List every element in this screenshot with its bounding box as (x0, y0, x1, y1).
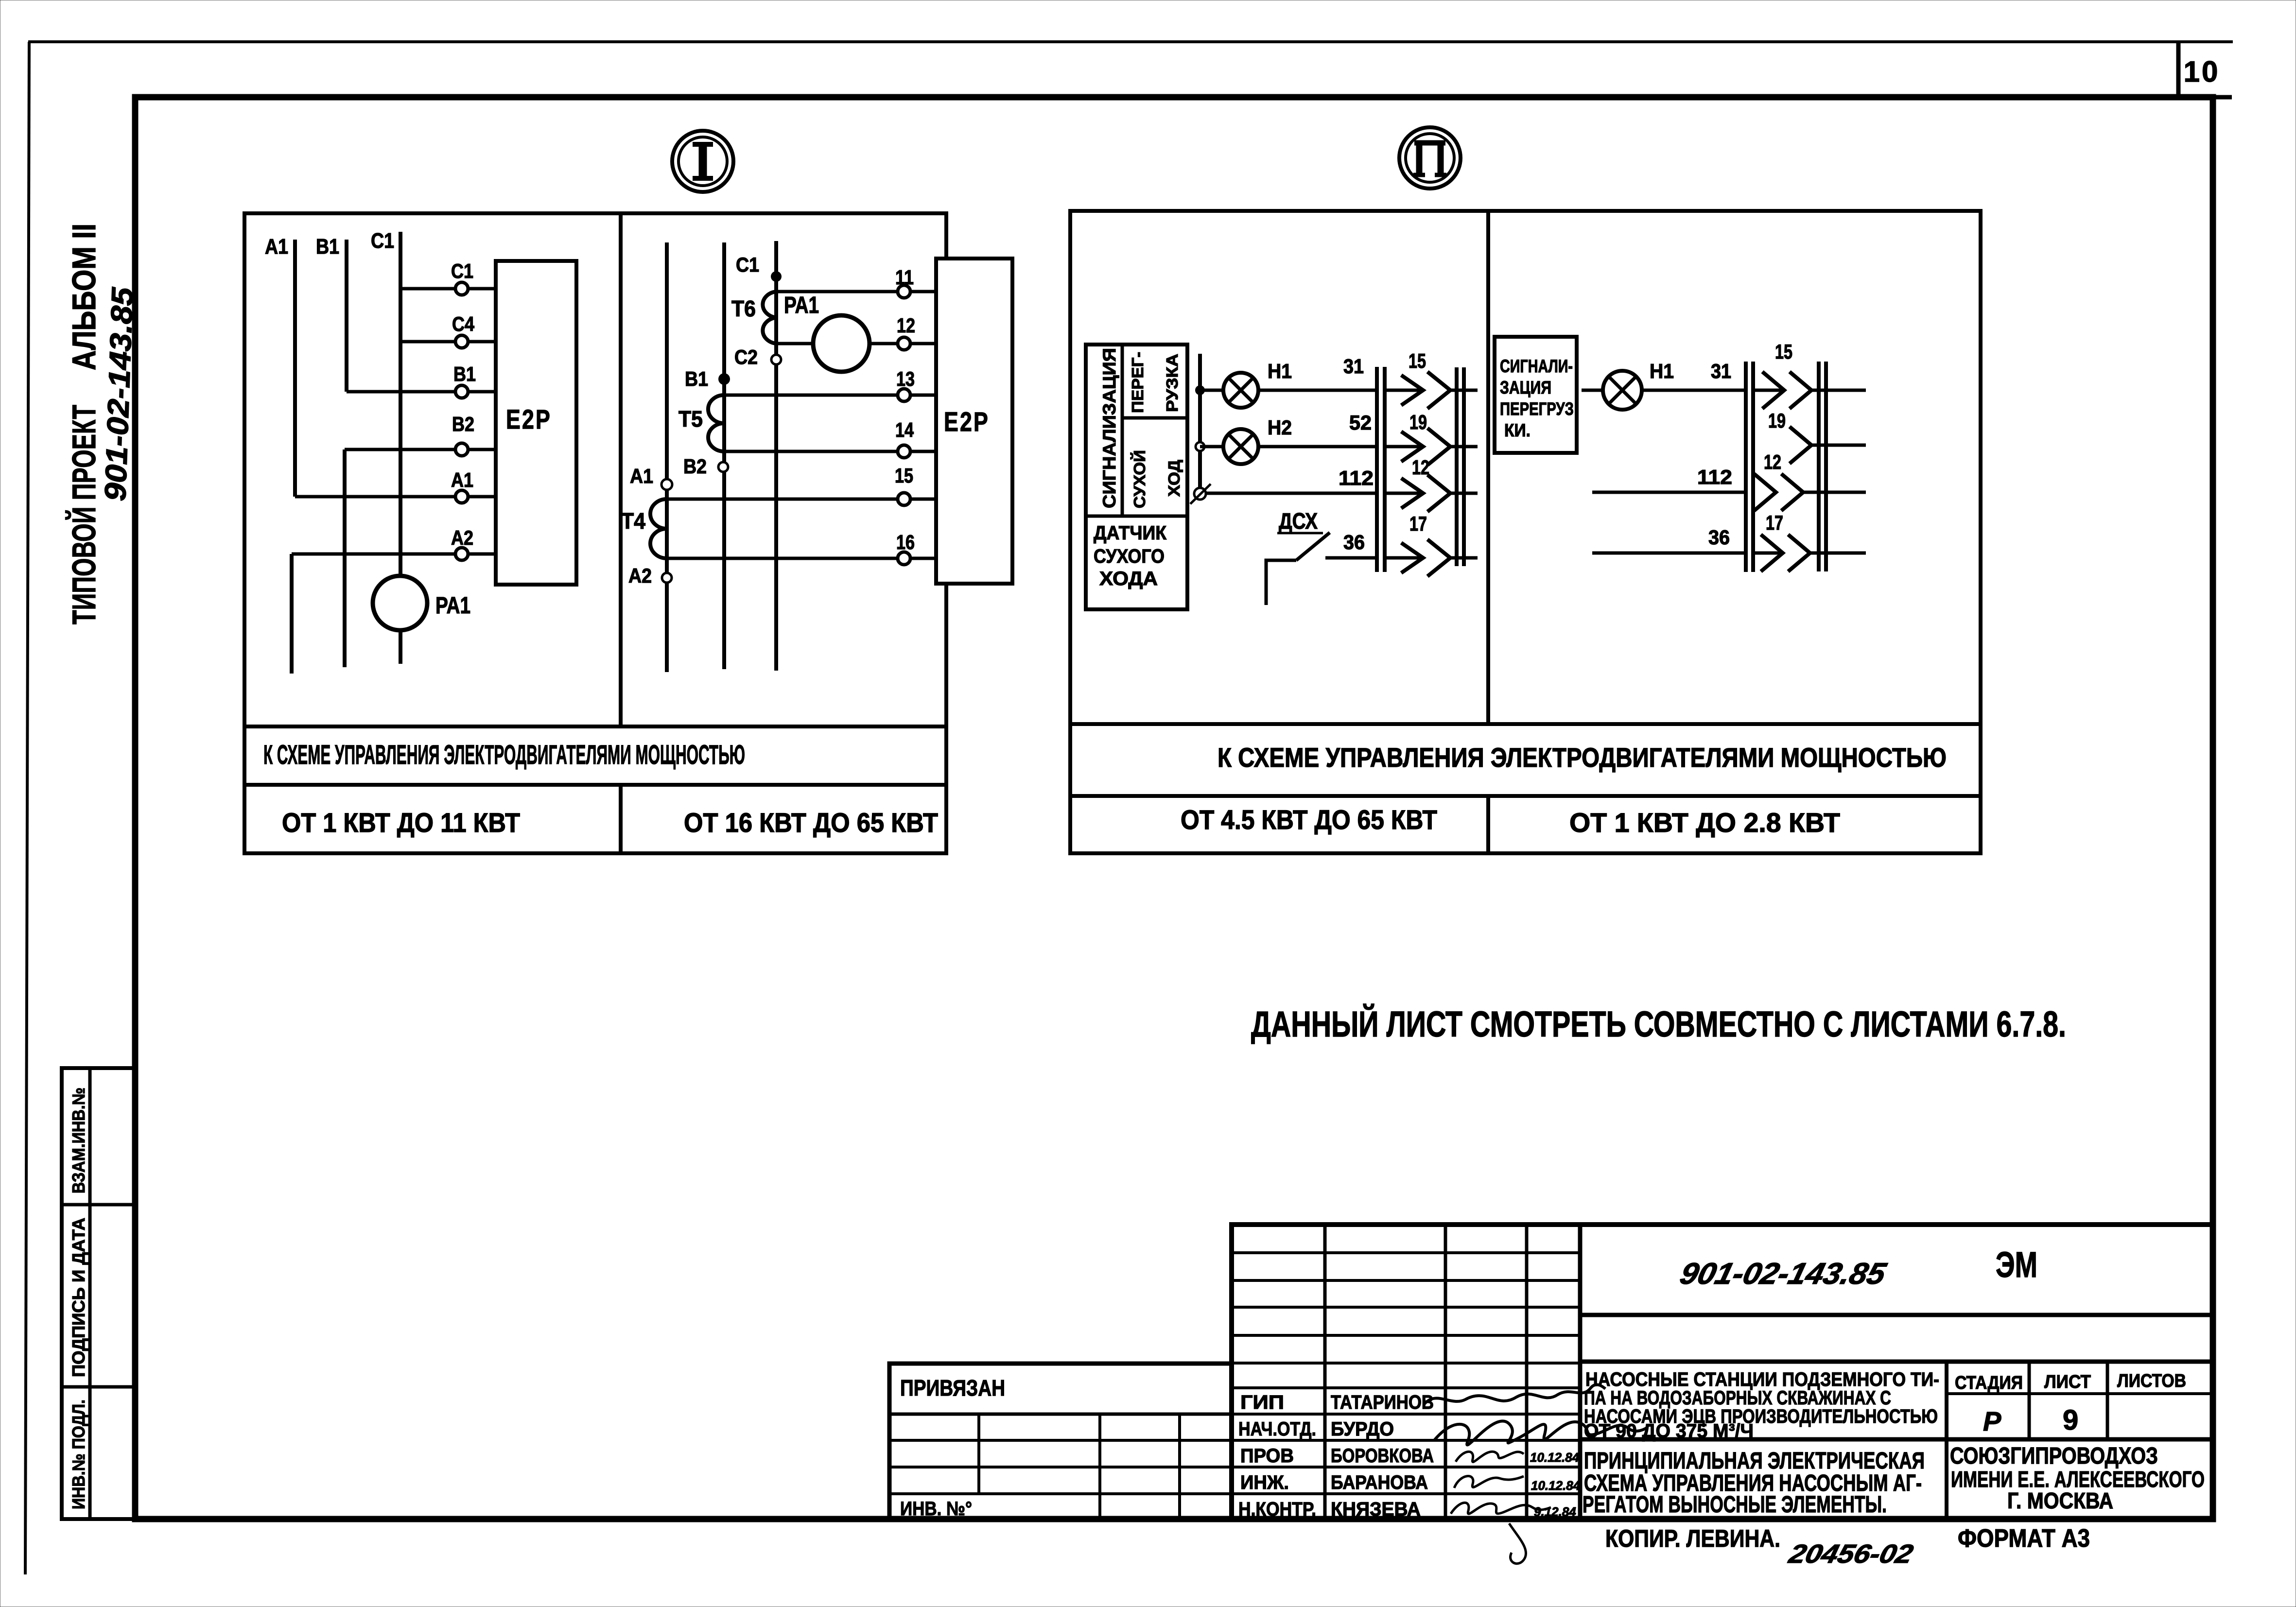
column line 2 (1444, 1225, 1447, 1521)
block I power row line (244, 783, 946, 787)
svg-text:В1: В1 (685, 367, 708, 390)
svg-text:13: 13 (896, 367, 915, 390)
svg-text:ОТ 1 КВТ ДО 2.8 КВТ: ОТ 1 КВТ ДО 2.8 КВТ (1569, 807, 1840, 838)
svg-text:Е2Р: Е2Р (944, 406, 990, 437)
left stamp row line 1 (62, 1203, 135, 1207)
svg-text:А1: А1 (451, 468, 473, 491)
column line 3 (1525, 1225, 1529, 1521)
signal bus left (1198, 354, 1202, 490)
block I divider lower (619, 785, 623, 853)
svg-text:ЛИСТОВ: ЛИСТОВ (2117, 1371, 2186, 1391)
node dot B1 (718, 373, 730, 385)
svg-text:К СХЕМЕ УПРАВЛЕНИЯ ЭЛЕКТРОДВ: К СХЕМЕ УПРАВЛЕНИЯ ЭЛЕКТРОДВИГАТЕЛЯМИ МО… (263, 739, 745, 770)
node circle A2 (662, 573, 672, 583)
lamp H1 right (1603, 371, 1642, 410)
svg-text:112: 112 (1339, 467, 1374, 489)
wire A1 tap (295, 495, 496, 499)
terminal circle with slash (1194, 488, 1206, 500)
svg-text:СТАДИЯ: СТАДИЯ (1955, 1373, 2023, 1393)
svg-text:В2: В2 (452, 413, 474, 435)
svg-text:А1: А1 (265, 235, 288, 259)
wire 36 left (1325, 556, 1376, 560)
wire 14 (724, 450, 936, 453)
svg-text:ЛИСТ: ЛИСТ (2044, 1372, 2091, 1392)
personnel row lines (1232, 1413, 1580, 1416)
wire bus to lamp H2 (1200, 445, 1224, 449)
node circle H2 tap (1196, 442, 1204, 451)
signature Татаринов (1424, 1385, 1605, 1404)
svg-text:9: 9 (2063, 1404, 2078, 1436)
row 19 right: single chevron, stub (1790, 427, 1811, 464)
block II caption row line (1070, 722, 1981, 726)
svg-text:Н2: Н2 (1268, 416, 1292, 439)
vertical bus B (right variant) (722, 242, 726, 669)
svg-text:ТИПОВОЙ ПРОЕКТ: ТИПОВОЙ ПРОЕКТ (65, 405, 103, 624)
svg-text:16: 16 (896, 531, 915, 553)
bus B1 (345, 240, 348, 392)
svg-text:ПРОВ: ПРОВ (1240, 1445, 1294, 1467)
svg-text:ИНЖ.: ИНЖ. (1240, 1472, 1289, 1493)
svg-text:КИ.: КИ. (1504, 420, 1531, 440)
bus C1 (399, 232, 402, 576)
svg-text:СИГНАЛИЗАЦИЯ: СИГНАЛИЗАЦИЯ (1099, 348, 1119, 508)
svg-text:112: 112 (1697, 466, 1732, 488)
svg-text:С1: С1 (736, 253, 759, 276)
svg-text:В1: В1 (453, 363, 476, 385)
CT coil T4 (650, 499, 667, 558)
svg-text:РА1: РА1 (784, 293, 819, 318)
svg-text:10.12.84: 10.12.84 (1530, 1450, 1580, 1465)
signature Бурдо (1434, 1421, 1648, 1445)
svg-text:ВЗАМ.ИНВ.№: ВЗАМ.ИНВ.№ (69, 1088, 88, 1193)
row 36 right: chevrons, stub (1753, 552, 1783, 555)
svg-text:ОТ 1 КВТ ДО 11 КВТ: ОТ 1 КВТ ДО 11 КВТ (282, 807, 520, 838)
block I divider upper (619, 213, 623, 726)
terminal 13 (898, 389, 910, 401)
relay E2P right box (936, 259, 1012, 584)
title block outer box (1232, 1225, 2213, 1519)
svg-text:РУЗКА: РУЗКА (1163, 354, 1181, 412)
CT coil T6 (763, 292, 776, 344)
wire bus to lamp H1 (1200, 389, 1224, 392)
small row lines (1232, 1251, 1580, 1254)
svg-text:17: 17 (1766, 511, 1783, 534)
row 36: chevrons, stub (1385, 556, 1423, 560)
SECTION: block I (244, 131, 1012, 853)
svg-text:ХОДА: ХОДА (1099, 568, 1158, 589)
svg-text:ИНВ. №°: ИНВ. №° (900, 1498, 972, 1520)
svg-text:ИНВ.№ ПОДЛ.: ИНВ.№ ПОДЛ. (69, 1400, 88, 1509)
svg-text:Н1: Н1 (1268, 360, 1292, 382)
svg-text:С1: С1 (451, 259, 473, 282)
svg-text:15: 15 (1409, 349, 1426, 372)
attachment column lines (977, 1414, 980, 1494)
svg-text:17: 17 (1409, 512, 1427, 535)
node circle B2 (718, 462, 728, 472)
wire A2 tap (292, 553, 496, 556)
terminal 14 (898, 445, 910, 458)
connector plate left pair (left half) (1375, 367, 1379, 572)
ammeter PA1 right (813, 315, 870, 372)
outer border top line (28, 40, 2233, 43)
page number box divider (2176, 42, 2181, 97)
variant marker I (double circle) (672, 131, 733, 192)
wire 52 (1258, 445, 1376, 449)
svg-text:9.12.84: 9.12.84 (1534, 1504, 1576, 1519)
wire B2 tap (345, 448, 496, 451)
wire stub to lamp H1 right (1582, 389, 1603, 392)
svg-text:ХОД: ХОД (1165, 460, 1183, 497)
SECTION: mid note (1251, 1003, 2066, 1044)
wire A2 down lead (290, 554, 294, 674)
svg-text:Т6: Т6 (731, 296, 756, 321)
row 31: wire to pin, chevrons, stub (1385, 389, 1423, 392)
svg-text:С2: С2 (734, 346, 758, 368)
outer border left line (25, 42, 29, 1574)
svg-text:СИГНАЛИ-: СИГНАЛИ- (1500, 356, 1573, 376)
legend row line above sensor (1086, 515, 1187, 518)
svg-text:В1: В1 (316, 235, 339, 259)
attachment row lines (889, 1439, 1232, 1442)
svg-text:СУХОГО: СУХОГО (1094, 546, 1165, 567)
stage columns (1945, 1362, 1948, 1521)
svg-text:12: 12 (1412, 456, 1429, 479)
svg-text:СУХОЙ: СУХОЙ (1130, 450, 1148, 508)
block II divider upper (1486, 211, 1490, 724)
svg-text:15: 15 (1775, 340, 1792, 363)
SECTION: block II (1070, 127, 1981, 853)
svg-text:15: 15 (895, 464, 913, 487)
wire 12 through PA1 (776, 342, 936, 346)
contact DSH lead (1266, 560, 1296, 605)
terminal C4 (455, 335, 468, 348)
wire below PA1 (399, 630, 402, 664)
contact DSH blade (1296, 533, 1330, 560)
row 52: chevrons, stub (1385, 445, 1423, 449)
svg-text:К СХЕМЕ УПРАВЛЕНИЯ ЭЛЕКТРОДВ: К СХЕМЕ УПРАВЛЕНИЯ ЭЛЕКТРОДВИГАТЕЛЯМИ МО… (1218, 742, 1947, 773)
svg-text:36: 36 (1343, 531, 1365, 553)
wire 11 (776, 290, 936, 294)
left stamp row line 2 (62, 1385, 135, 1389)
ammeter PA1 left (373, 576, 427, 630)
vertical bus C (right variant) (774, 241, 778, 671)
attachment table box (889, 1364, 1232, 1519)
right area row line 3 (1580, 1437, 2213, 1442)
svg-text:Е2Р: Е2Р (506, 404, 552, 434)
svg-text:ТАТАРИНОВ: ТАТАРИНОВ (1331, 1392, 1434, 1413)
right area row line 1 (1580, 1313, 2213, 1317)
column line 1 (1323, 1225, 1327, 1521)
terminal 16 (898, 552, 910, 565)
svg-text:АЛЬБОМ II: АЛЬБОМ II (66, 224, 103, 370)
svg-text:ГИП: ГИП (1240, 1392, 1284, 1413)
svg-text:12: 12 (1764, 450, 1781, 473)
svg-text:20456-02: 20456-02 (1786, 1539, 1916, 1569)
svg-text:12: 12 (897, 314, 915, 337)
svg-text:Н.КОНТР.: Н.КОНТР. (1238, 1499, 1316, 1520)
wire 31 left (1258, 389, 1376, 392)
legend table vertical divider (1121, 345, 1124, 516)
node circle C2 (771, 355, 781, 364)
block I outer box (244, 213, 946, 853)
svg-text:РА1: РА1 (435, 593, 470, 619)
variant marker II (double circle) (1399, 127, 1461, 189)
svg-text:36: 36 (1708, 526, 1730, 549)
svg-text:ПЕРЕГРУЗ: ПЕРЕГРУЗ (1500, 399, 1574, 419)
svg-text:СОЮЗГИПРОВОДХОЗ: СОЮЗГИПРОВОДХОЗ (1950, 1443, 2158, 1469)
svg-text:ПРИВЯЗАН: ПРИВЯЗАН (900, 1375, 1005, 1400)
svg-text:РЕГАТОМ ВЫНОСНЫЕ ЭЛЕМЕНТЫ.: РЕГАТОМ ВЫНОСНЫЕ ЭЛЕМЕНТЫ. (1583, 1492, 1887, 1518)
connector plate left pair (right half) (1744, 362, 1748, 572)
wire 15 (667, 498, 936, 501)
svg-text:52: 52 (1349, 411, 1372, 434)
svg-text:ОТ 4.5 КВТ ДО 65 КВТ: ОТ 4.5 КВТ ДО 65 КВТ (1181, 804, 1437, 835)
terminal A2 (455, 548, 468, 560)
block I caption row line (244, 725, 946, 728)
row 112: chevrons, stub (1385, 492, 1423, 495)
svg-text:31: 31 (1711, 360, 1731, 382)
svg-text:ФОРМАТ А3: ФОРМАТ А3 (1958, 1524, 2090, 1553)
terminal B2 (455, 443, 468, 456)
svg-text:Т5: Т5 (678, 406, 703, 432)
wire 31 right (1642, 389, 1746, 392)
wire B2 down lead (343, 449, 347, 667)
terminal C1 (455, 282, 468, 295)
svg-text:Т4: Т4 (621, 508, 645, 534)
wire 16 (667, 557, 936, 560)
left side stamp table box (62, 1068, 135, 1519)
node dot C1 (771, 271, 782, 282)
svg-text:ЗАЦИЯ: ЗАЦИЯ (1500, 378, 1551, 397)
legend row line under overload (1122, 416, 1187, 420)
svg-text:В2: В2 (683, 455, 707, 478)
terminal A1 (455, 490, 468, 503)
terminal B1 (455, 385, 468, 398)
legend table box (1086, 345, 1187, 609)
terminal 11 (898, 285, 910, 298)
terminal 15 (898, 493, 910, 505)
svg-text:Г. МОСКВА: Г. МОСКВА (2007, 1488, 2113, 1513)
svg-text:А2: А2 (451, 526, 473, 549)
wire 13 (724, 394, 936, 397)
svg-text:А1: А1 (630, 465, 653, 487)
svg-text:С1: С1 (371, 229, 394, 253)
svg-text:БУРДО: БУРДО (1331, 1418, 1394, 1440)
svg-text:901-02-143.85: 901-02-143.85 (1677, 1257, 1890, 1291)
connector plate right pair (left half) (1455, 367, 1459, 566)
svg-text:А2: А2 (628, 564, 652, 587)
SECTION: title block (889, 1225, 2213, 1569)
block II outer box (1070, 211, 1981, 853)
wire C4 tap (400, 340, 496, 344)
signature Баранова (1454, 1476, 1524, 1488)
wire B1 tap (347, 390, 496, 394)
note box Сигнализация перегрузки (1495, 337, 1577, 453)
svg-text:С4: С4 (452, 312, 475, 335)
right area row line 2 (1580, 1360, 2213, 1364)
svg-text:10: 10 (2184, 55, 2220, 88)
svg-text:14: 14 (895, 418, 914, 441)
connector plate right pair (right half) (1817, 362, 1821, 571)
svg-text:БОРОВКОВА: БОРОВКОВА (1331, 1445, 1434, 1467)
svg-text:ДАННЫЙ ЛИСТ СМОТРЕТЬ СОВМЕС: ДАННЫЙ ЛИСТ СМОТРЕТЬ СОВМЕСТНО С ЛИСТАМИ… (1251, 1003, 2066, 1044)
svg-text:БАРАНОВА: БАРАНОВА (1331, 1472, 1428, 1493)
svg-text:ПЕРЕГ-: ПЕРЕГ- (1129, 352, 1147, 413)
svg-text:Н1: Н1 (1650, 360, 1674, 382)
wire 112 left (1206, 492, 1376, 495)
stage header underline (1947, 1392, 2213, 1395)
wire 112 right (1592, 491, 1746, 494)
row 31 right: chevrons, stub (1753, 389, 1784, 392)
attachment header line (889, 1413, 1232, 1416)
svg-text:КНЯЗЕВА: КНЯЗЕВА (1331, 1499, 1421, 1520)
svg-text:ОТ 16 КВТ ДО 65 КВТ: ОТ 16 КВТ ДО 65 КВТ (684, 807, 938, 838)
node circle A1 (661, 479, 672, 490)
SECTION: left margin texts (65, 224, 139, 624)
signature flourish below (1509, 1523, 1526, 1564)
svg-text:19: 19 (1409, 411, 1427, 433)
CT coil T5 (708, 395, 724, 451)
signature Боровкова (1456, 1451, 1524, 1462)
svg-text:10.12.84: 10.12.84 (1531, 1478, 1581, 1493)
svg-text:ДСХ: ДСХ (1279, 508, 1318, 534)
relay E2P left box (496, 261, 576, 585)
lamp H1 left (1223, 373, 1258, 408)
signature Князева (1451, 1503, 1551, 1514)
terminal 12 (898, 337, 910, 350)
row 112 right: chevrons, stub (1754, 474, 1776, 511)
left stamp divider vertical (88, 1068, 92, 1519)
svg-text:Р: Р (1983, 1406, 2001, 1436)
bus A1 (293, 240, 297, 497)
svg-text:КОПИР. ЛЕВИНА.: КОПИР. ЛЕВИНА. (1605, 1525, 1780, 1552)
wire 36 right (1592, 552, 1746, 555)
svg-text:31: 31 (1343, 355, 1364, 378)
svg-text:НАЧ.ОТД.: НАЧ.ОТД. (1238, 1418, 1316, 1440)
vertical bus A (right variant) (665, 242, 669, 672)
wire C1 tap (400, 287, 496, 291)
junction dot H1 tap (1195, 385, 1205, 395)
column line 4 (1578, 1225, 1583, 1521)
block II power row line (1070, 794, 1981, 798)
block II divider lower (1486, 796, 1490, 853)
svg-text:ПОДПИСЬ И ДАТА: ПОДПИСЬ И ДАТА (69, 1218, 88, 1377)
svg-text:19: 19 (1768, 409, 1786, 432)
svg-text:ОТ 90 ДО 375 М³/Ч: ОТ 90 ДО 375 М³/Ч (1584, 1420, 1754, 1442)
svg-text:11: 11 (895, 266, 914, 289)
top strip bottom line (2213, 95, 2232, 100)
svg-text:ЭМ: ЭМ (1996, 1244, 2037, 1285)
lamp H2 (1223, 429, 1258, 464)
svg-text:ДАТЧИК: ДАТЧИК (1094, 522, 1167, 544)
